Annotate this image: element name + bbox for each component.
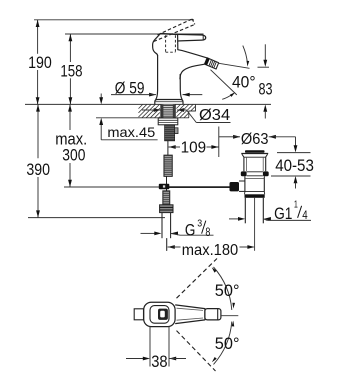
svg-text:40°: 40° <box>232 73 256 92</box>
svg-text:3: 3 <box>197 218 202 230</box>
svg-text:300: 300 <box>62 146 85 165</box>
svg-text:G: G <box>185 220 196 239</box>
svg-text:190: 190 <box>28 53 52 72</box>
svg-text:Ø34: Ø34 <box>199 107 230 124</box>
svg-text:83: 83 <box>259 80 273 99</box>
svg-text:158: 158 <box>60 61 82 80</box>
svg-text:G1: G1 <box>274 204 292 223</box>
svg-text:38: 38 <box>151 352 167 371</box>
svg-text:50°: 50° <box>215 281 240 300</box>
svg-text:Ø63: Ø63 <box>241 131 269 148</box>
svg-text:max.45: max.45 <box>107 125 155 140</box>
svg-text:109: 109 <box>181 139 207 156</box>
svg-text:8: 8 <box>205 225 210 239</box>
svg-text:1: 1 <box>294 199 298 211</box>
svg-text:4: 4 <box>302 208 308 222</box>
svg-text:390: 390 <box>26 160 50 179</box>
svg-text:50°: 50° <box>215 334 240 353</box>
svg-text:40-53: 40-53 <box>275 156 314 175</box>
svg-text:Ø 59: Ø 59 <box>115 79 145 98</box>
svg-text:max.180: max.180 <box>182 242 238 259</box>
